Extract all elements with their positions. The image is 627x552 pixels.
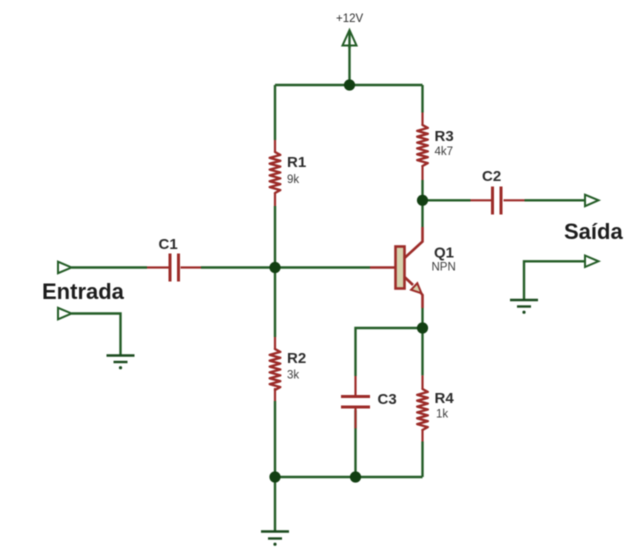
svg-text:R1: R1 (287, 154, 306, 171)
svg-text:C3: C3 (378, 391, 397, 408)
svg-text:Q1: Q1 (434, 245, 454, 262)
svg-text:9k: 9k (287, 174, 299, 186)
svg-text:R2: R2 (287, 350, 306, 367)
svg-text:C2: C2 (482, 168, 501, 185)
svg-text:Saída: Saída (564, 219, 623, 244)
svg-text:R3: R3 (435, 128, 454, 145)
svg-text:+12V: +12V (336, 13, 364, 25)
svg-text:Entrada: Entrada (42, 279, 125, 304)
svg-text:4k7: 4k7 (435, 146, 454, 158)
svg-text:C1: C1 (159, 236, 178, 253)
svg-text:1k: 1k (436, 409, 448, 421)
svg-text:3k: 3k (287, 370, 299, 382)
svg-text:R4: R4 (435, 390, 455, 407)
svg-text:NPN: NPN (432, 262, 456, 274)
